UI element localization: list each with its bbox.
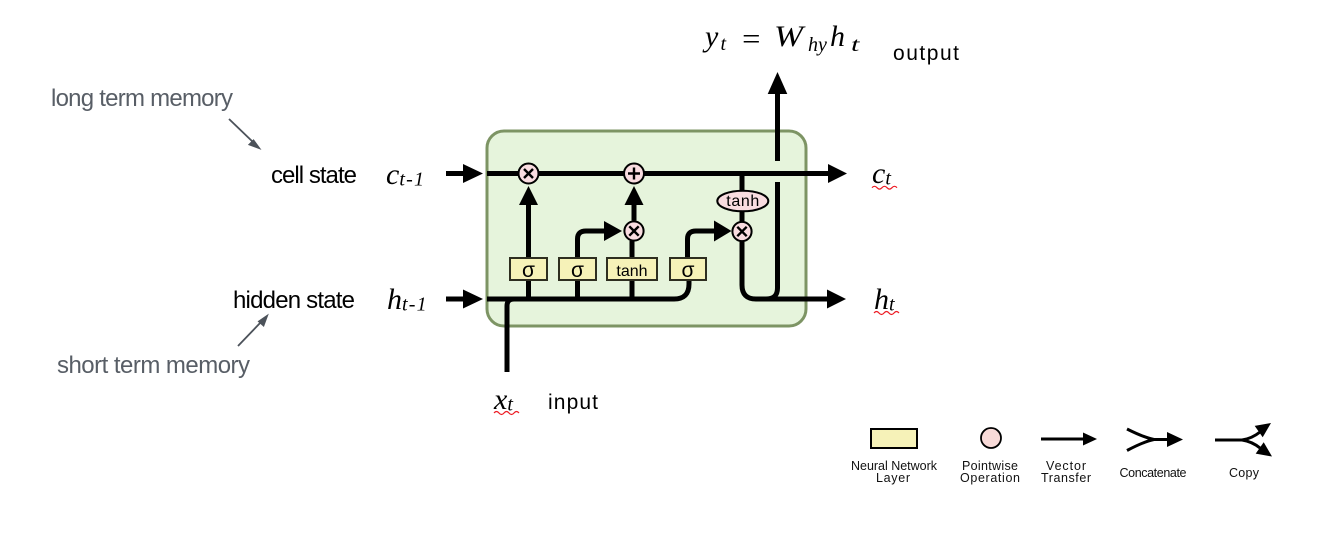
svg-text:W: W — [774, 20, 806, 53]
sigma gate 1 — [510, 258, 547, 282]
svg-text:hidden state: hidden state — [233, 287, 355, 314]
tanh ellipse — [717, 191, 768, 212]
squiggle under c_t — [872, 186, 897, 189]
cell state input arrow — [446, 164, 483, 183]
svg-text:σ: σ — [571, 259, 584, 282]
legend: concatenate symbol — [1127, 429, 1169, 451]
svg-text:=: = — [740, 23, 762, 56]
branch up to y_t output (with hop gap over cell line) — [766, 182, 778, 299]
arrow from long term memory to cell state — [229, 119, 259, 148]
sigma2 vertical down — [575, 280, 580, 301]
tanh gate vertical down — [630, 280, 635, 301]
sigma1 vertical: down to hidden line — [526, 280, 531, 301]
x_t input line — [507, 299, 514, 372]
sigma gate 2 — [559, 258, 596, 282]
sigma1 up-arrow into mult1 — [519, 186, 538, 258]
equation y_t = W_hy h_t — [702, 20, 860, 56]
svg-text:tanh: tanh — [616, 263, 647, 280]
sigma2 elbow right into mult2 — [578, 221, 623, 258]
cell state line through box to c_t arrow — [487, 164, 847, 183]
svg-text:σ: σ — [682, 259, 695, 282]
sigma gate 4 — [670, 258, 706, 282]
squiggle under h_t — [874, 312, 899, 315]
hidden state input arrow — [446, 290, 483, 309]
LSTM cell body (green rounded box) — [487, 131, 806, 326]
svg-text:t: t — [721, 33, 727, 55]
svg-text:Copy: Copy — [1229, 466, 1260, 480]
svg-text:tanh: tanh — [726, 193, 759, 210]
arrow from short term memory to hidden state — [238, 316, 267, 346]
mult2 up-arrow into add — [625, 186, 644, 221]
squiggle under x_t — [494, 412, 519, 415]
svg-text:y: y — [702, 20, 719, 53]
pointwise mult3 circle — [732, 222, 751, 241]
pointwise mult1 circle — [519, 164, 539, 184]
legend: neural network layer box — [871, 429, 917, 448]
svg-text:hy: hy — [808, 34, 827, 56]
svg-text:short term memory: short term memory — [57, 352, 250, 379]
legend: vector transfer arrow — [1041, 433, 1097, 446]
svg-text:σ: σ — [522, 259, 535, 282]
svg-text:input: input — [548, 391, 598, 414]
svg-text:Layer: Layer — [876, 471, 910, 485]
svg-text:Transfer: Transfer — [1041, 471, 1091, 485]
pointwise add circle — [624, 164, 644, 184]
sigma4 elbow right into mult3 — [688, 221, 732, 259]
svg-text:cell state: cell state — [271, 162, 357, 189]
line tanh ellipse down to mult3 — [740, 210, 745, 223]
pointwise mult2 circle — [624, 221, 643, 240]
tanh gate vertical up to mult2 — [630, 241, 635, 258]
svg-text:Operation: Operation — [960, 471, 1020, 485]
hidden state output line from tanh-mult down and right to h_t arrow — [742, 241, 846, 309]
legend: copy symbol — [1215, 432, 1260, 448]
svg-text:Concatenate: Concatenate — [1120, 466, 1187, 480]
legend: pointwise operation circle — [981, 428, 1001, 448]
svg-text:long term memory: long term memory — [51, 85, 233, 112]
tanh gate — [607, 258, 657, 280]
svg-text:h: h — [830, 20, 845, 53]
hidden state line inside box curving up into sigma4 — [487, 280, 689, 299]
line cell line down to tanh ellipse — [740, 174, 745, 193]
svg-text:output: output — [893, 42, 959, 65]
svg-text:t: t — [851, 33, 860, 56]
